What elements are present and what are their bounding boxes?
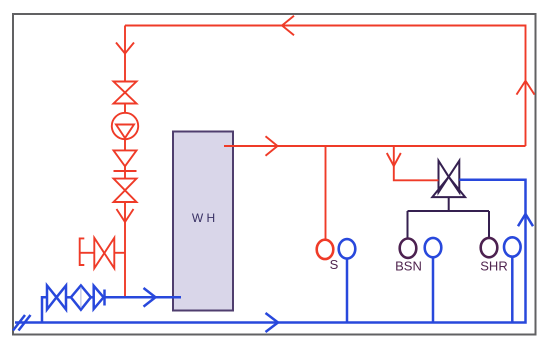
svg-text:S: S [330, 257, 339, 272]
svg-text:BSN: BSN [395, 259, 422, 274]
svg-text:SHR: SHR [480, 259, 507, 274]
svg-text:W H: W H [192, 211, 215, 225]
